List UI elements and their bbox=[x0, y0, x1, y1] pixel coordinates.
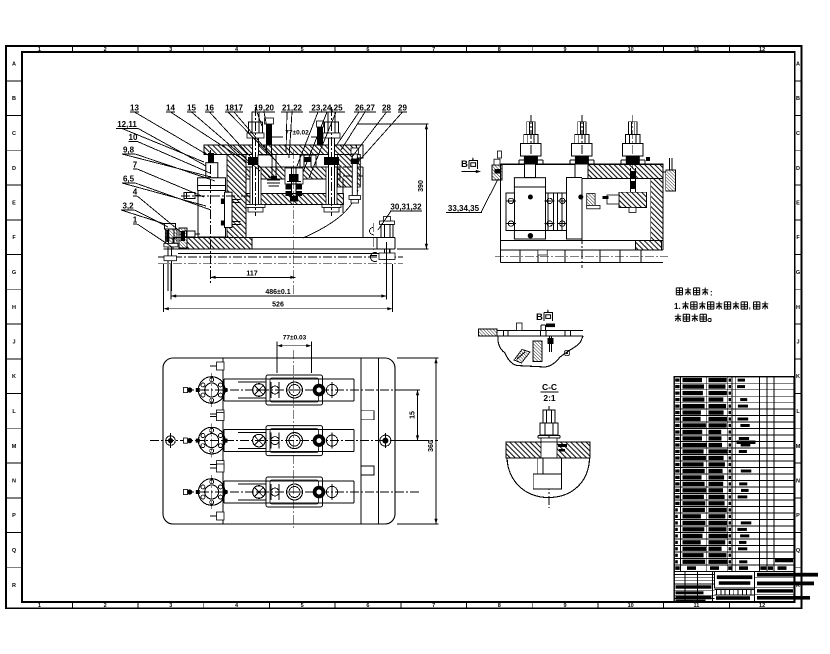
top plate item 13 bbox=[204, 145, 362, 155]
tech requirements bbox=[674, 288, 768, 322]
stud boss mid bbox=[575, 164, 588, 178]
centerline center screw bbox=[293, 150, 295, 296]
pin P1 item 20 bbox=[265, 118, 274, 124]
svg-text:G: G bbox=[796, 270, 800, 276]
svg-text:29: 29 bbox=[398, 104, 407, 113]
clamp screw in cavity bbox=[629, 168, 631, 192]
table T-slot centerline bbox=[158, 256, 403, 258]
svg-text:9,8: 9,8 bbox=[123, 146, 135, 155]
svg-text:,: , bbox=[749, 304, 751, 311]
svg-text:K: K bbox=[796, 374, 800, 380]
svg-text:14: 14 bbox=[166, 104, 175, 113]
T-bolt left item 2 bbox=[165, 223, 176, 229]
detail B bbox=[479, 310, 584, 367]
detail B wedge bbox=[514, 350, 530, 364]
clamp block in cavity bbox=[619, 192, 647, 207]
row 3 left bolt bbox=[187, 489, 192, 494]
svg-text:7: 7 bbox=[432, 603, 435, 609]
locator block items 23-25 bbox=[300, 155, 316, 167]
row 2 slide plate bbox=[266, 426, 323, 456]
BOM table outline bbox=[674, 377, 794, 602]
plan view vertical centerline bbox=[293, 350, 295, 530]
svg-text:6,5: 6,5 bbox=[123, 175, 135, 184]
cylinder right plate bbox=[225, 192, 233, 227]
svg-text:8: 8 bbox=[498, 47, 501, 53]
row 3 cylinder flange bbox=[198, 479, 225, 506]
C-C dome bbox=[507, 458, 590, 498]
row 3 slide plate bbox=[266, 477, 323, 507]
tech requirements heading bbox=[676, 288, 682, 295]
stud channel S1 bbox=[250, 167, 261, 205]
svg-text:E: E bbox=[12, 201, 16, 207]
dim 526 bbox=[164, 308, 393, 310]
svg-text:5: 5 bbox=[301, 603, 304, 609]
svg-text:G: G bbox=[12, 270, 16, 276]
svg-text:21,22: 21,22 bbox=[282, 104, 303, 113]
svg-text:A: A bbox=[796, 62, 800, 68]
svg-text:Q: Q bbox=[12, 548, 17, 554]
detail B left block bbox=[479, 329, 498, 336]
svg-text:13: 13 bbox=[130, 104, 139, 113]
BOM row texts bbox=[675, 379, 679, 382]
svg-text:3: 3 bbox=[169, 603, 172, 609]
clamp row 2 centerline bbox=[150, 440, 438, 442]
svg-text:3: 3 bbox=[169, 47, 172, 53]
row 3 edge tabs bbox=[217, 464, 225, 472]
C-C nut bbox=[540, 423, 558, 435]
left hex bolt upper bbox=[184, 193, 195, 199]
base plate item 1 bbox=[173, 237, 395, 239]
row 2 circles bbox=[253, 434, 266, 447]
section C-C bbox=[506, 382, 590, 508]
stud boss left bbox=[525, 164, 536, 178]
row 1 edge tabs bbox=[217, 362, 225, 370]
svg-text:C: C bbox=[12, 131, 16, 137]
title block right texts bbox=[757, 573, 818, 577]
svg-text:C: C bbox=[796, 131, 800, 137]
svg-text:5: 5 bbox=[301, 47, 304, 53]
table T-slot centerline 2 bbox=[158, 262, 403, 264]
BOM row lines bbox=[674, 382, 794, 384]
row 2 edge tabs bbox=[217, 413, 225, 421]
svg-text:R: R bbox=[12, 583, 16, 589]
svg-text:J: J bbox=[12, 340, 15, 346]
detail B screw circle bbox=[564, 350, 570, 356]
svg-text:390: 390 bbox=[418, 180, 425, 192]
svg-text:28: 28 bbox=[382, 104, 391, 113]
small parts left of center bbox=[258, 155, 272, 167]
right rail edges bbox=[360, 358, 362, 524]
plate bolts bbox=[528, 195, 533, 200]
side view body outline bbox=[501, 163, 663, 165]
front view bbox=[116, 104, 429, 313]
svg-text:H: H bbox=[12, 305, 16, 311]
plan view base plate outline bbox=[163, 358, 395, 524]
cylinder top nut (black) bbox=[208, 153, 214, 163]
rod guide block item 11 bbox=[206, 163, 218, 178]
sectioned bottom right block bbox=[636, 240, 662, 250]
centerline stud S2 bbox=[331, 107, 333, 216]
small screw item 19 bbox=[271, 155, 273, 180]
C-C inner block bbox=[538, 458, 562, 474]
row 2 cylinder flange bbox=[198, 427, 225, 454]
centerline cylinder axis bbox=[209, 150, 211, 284]
tech requirements line 2 bbox=[675, 314, 681, 322]
middle guide plates bbox=[547, 193, 549, 231]
BOM table bbox=[674, 377, 818, 602]
stud S1 item 14 bbox=[253, 138, 259, 205]
svg-text:19,20: 19,20 bbox=[254, 104, 275, 113]
svg-text::: : bbox=[710, 289, 713, 298]
detail B hatched pin strip bbox=[533, 341, 542, 362]
left hex bolt lower bbox=[184, 231, 195, 237]
svg-text:16: 16 bbox=[205, 104, 214, 113]
svg-text:77±0.03: 77±0.03 bbox=[283, 335, 307, 342]
centerline piston rod bbox=[181, 195, 251, 197]
dim 486 bbox=[171, 295, 387, 297]
svg-text:10: 10 bbox=[628, 603, 634, 609]
sectioned right column bbox=[651, 179, 663, 241]
row 1 clamp arm bbox=[224, 378, 354, 380]
extra leaders for grouped labels bbox=[228, 112, 277, 162]
svg-text:12: 12 bbox=[759, 603, 765, 609]
clamp piece at mid stud bbox=[587, 194, 595, 206]
svg-text:P: P bbox=[12, 513, 16, 519]
svg-text:486±0.1: 486±0.1 bbox=[265, 289, 290, 296]
dim 360 bbox=[397, 357, 439, 359]
row 1 circles bbox=[253, 384, 266, 397]
svg-text:H: H bbox=[796, 305, 800, 311]
side view studs bbox=[519, 115, 543, 170]
detail B pin bbox=[549, 336, 551, 352]
svg-text:P: P bbox=[796, 513, 800, 519]
svg-text:23,24,25: 23,24,25 bbox=[311, 104, 343, 113]
right bolt items 30-32 bbox=[380, 221, 395, 225]
wedge washer item 4 bbox=[179, 228, 187, 248]
dim 15 bbox=[395, 389, 420, 391]
right sub block bbox=[567, 178, 582, 239]
dim 390 bbox=[357, 123, 428, 125]
bar ticks bbox=[503, 331, 505, 337]
c-washer item 31 bbox=[370, 228, 373, 235]
cavity bbox=[582, 179, 651, 241]
C-C small annotations bbox=[558, 444, 567, 447]
clamp row 3 centerline bbox=[185, 491, 420, 493]
title block right column bbox=[754, 572, 756, 603]
stud channel S2 bbox=[326, 167, 337, 205]
svg-text:77±0.02: 77±0.02 bbox=[285, 130, 309, 137]
svg-text:11: 11 bbox=[693, 47, 699, 53]
right hook bracket bbox=[666, 170, 676, 191]
svg-text:D: D bbox=[796, 166, 800, 172]
row 1 slide plate bbox=[266, 375, 323, 405]
svg-text:B: B bbox=[536, 312, 543, 323]
BOM remark blobs bbox=[737, 441, 756, 445]
row 1 left bolt bbox=[187, 387, 192, 392]
svg-text:6: 6 bbox=[366, 47, 369, 53]
side view table centerline bbox=[495, 256, 668, 258]
svg-text:Q: Q bbox=[796, 548, 801, 554]
svg-text:526: 526 bbox=[272, 302, 284, 309]
svg-text:12: 12 bbox=[759, 47, 765, 53]
centerline stud S1 bbox=[255, 107, 257, 216]
C-C bolt head bbox=[543, 410, 555, 423]
svg-text:9: 9 bbox=[563, 603, 566, 609]
svg-text:30,31,32: 30,31,32 bbox=[390, 203, 422, 212]
svg-text:E: E bbox=[796, 201, 800, 207]
sheet inner border bbox=[22, 52, 795, 602]
hydraulic cylinder flange bbox=[198, 178, 226, 191]
svg-text:360: 360 bbox=[428, 440, 435, 452]
svg-text:K: K bbox=[12, 374, 16, 380]
machine table top bbox=[178, 252, 390, 254]
body left hatched column bbox=[227, 155, 246, 238]
svg-text:33,34,35: 33,34,35 bbox=[448, 204, 480, 213]
plan view bbox=[150, 335, 439, 531]
row 2 clamp arm bbox=[224, 429, 354, 431]
svg-text:N: N bbox=[12, 479, 16, 485]
row2 outer bolts bbox=[168, 438, 173, 443]
svg-text:2: 2 bbox=[104, 603, 107, 609]
base step lines bbox=[519, 250, 521, 263]
body mid walls bbox=[245, 179, 247, 238]
row 3 circles bbox=[253, 486, 266, 499]
svg-text:11: 11 bbox=[693, 603, 699, 609]
title box bbox=[715, 572, 755, 588]
BOM column lines bbox=[679, 377, 681, 572]
rail tabs bbox=[361, 411, 374, 420]
stud S2 item 26 bbox=[329, 138, 335, 205]
svg-text:1: 1 bbox=[38, 603, 41, 609]
svg-text:7: 7 bbox=[133, 161, 138, 170]
svg-text:1817: 1817 bbox=[225, 104, 243, 113]
side view B bbox=[446, 115, 676, 268]
svg-text:B: B bbox=[12, 96, 16, 102]
svg-text:1: 1 bbox=[38, 47, 41, 53]
svg-text:3,2: 3,2 bbox=[122, 202, 134, 211]
svg-text:M: M bbox=[12, 444, 17, 450]
piston rod screws bbox=[232, 199, 241, 201]
svg-text:A: A bbox=[12, 62, 16, 68]
clamp row 1 centerline bbox=[185, 389, 420, 391]
row 3 clamp arm bbox=[224, 480, 354, 482]
svg-text:1.: 1. bbox=[674, 302, 681, 311]
svg-text:2:1: 2:1 bbox=[543, 393, 556, 403]
pin P2 bbox=[317, 121, 324, 127]
spring section bbox=[286, 185, 292, 190]
C-C centerline bbox=[548, 406, 550, 508]
C-C washer bbox=[538, 435, 560, 437]
svg-text:D: D bbox=[12, 166, 16, 172]
svg-text:N: N bbox=[796, 479, 800, 485]
section trace through middle stud bbox=[581, 115, 583, 268]
title block signature text bbox=[676, 585, 712, 588]
center screw pocket bbox=[285, 168, 303, 184]
svg-text:J: J bbox=[796, 340, 799, 346]
svg-text:15: 15 bbox=[410, 411, 417, 419]
title box sub grid bbox=[715, 594, 755, 596]
sectioned top band bbox=[575, 164, 663, 178]
svg-text:B: B bbox=[461, 159, 468, 170]
svg-text:8: 8 bbox=[498, 603, 501, 609]
svg-text:6: 6 bbox=[366, 603, 369, 609]
svg-text:C-C: C-C bbox=[542, 382, 557, 392]
detail B body outline bbox=[498, 336, 583, 367]
svg-text:4: 4 bbox=[133, 188, 138, 197]
svg-text:15: 15 bbox=[187, 104, 196, 113]
svg-text:10: 10 bbox=[628, 47, 634, 53]
hydraulic cylinder item 7 bbox=[198, 191, 226, 238]
c-washer bbox=[370, 253, 377, 262]
BOM header row bbox=[674, 571, 794, 573]
left side gib plate bbox=[506, 193, 514, 231]
svg-text:M: M bbox=[796, 444, 801, 450]
right bracket bolt item 28 bbox=[352, 154, 357, 196]
title block grid left bbox=[684, 572, 686, 603]
row 1 cylinder flange bbox=[198, 377, 225, 404]
svg-text:2: 2 bbox=[104, 47, 107, 53]
upper die block item 15 bbox=[246, 167, 340, 179]
top plate right step bbox=[357, 145, 364, 158]
left slide plate bbox=[514, 178, 545, 239]
left clamp bracket items 33-35 bbox=[492, 165, 502, 180]
svg-text:1: 1 bbox=[133, 216, 138, 225]
svg-text:7: 7 bbox=[432, 47, 435, 53]
svg-text:26,27: 26,27 bbox=[355, 104, 376, 113]
plate edge line bbox=[222, 358, 224, 524]
svg-text:117: 117 bbox=[246, 270, 257, 277]
center screw item 17 bbox=[291, 167, 293, 196]
svg-text:B: B bbox=[796, 96, 800, 102]
dim 117 bbox=[210, 276, 295, 278]
C-C plate bbox=[506, 442, 590, 458]
svg-text:9: 9 bbox=[563, 47, 566, 53]
svg-text:12,11: 12,11 bbox=[117, 120, 137, 129]
body right hatched region bbox=[338, 155, 361, 188]
pressure plate bbox=[246, 194, 343, 205]
body right curve bbox=[303, 190, 358, 238]
detail B top bar bbox=[497, 330, 583, 332]
row 2 left bolt bbox=[187, 438, 192, 443]
